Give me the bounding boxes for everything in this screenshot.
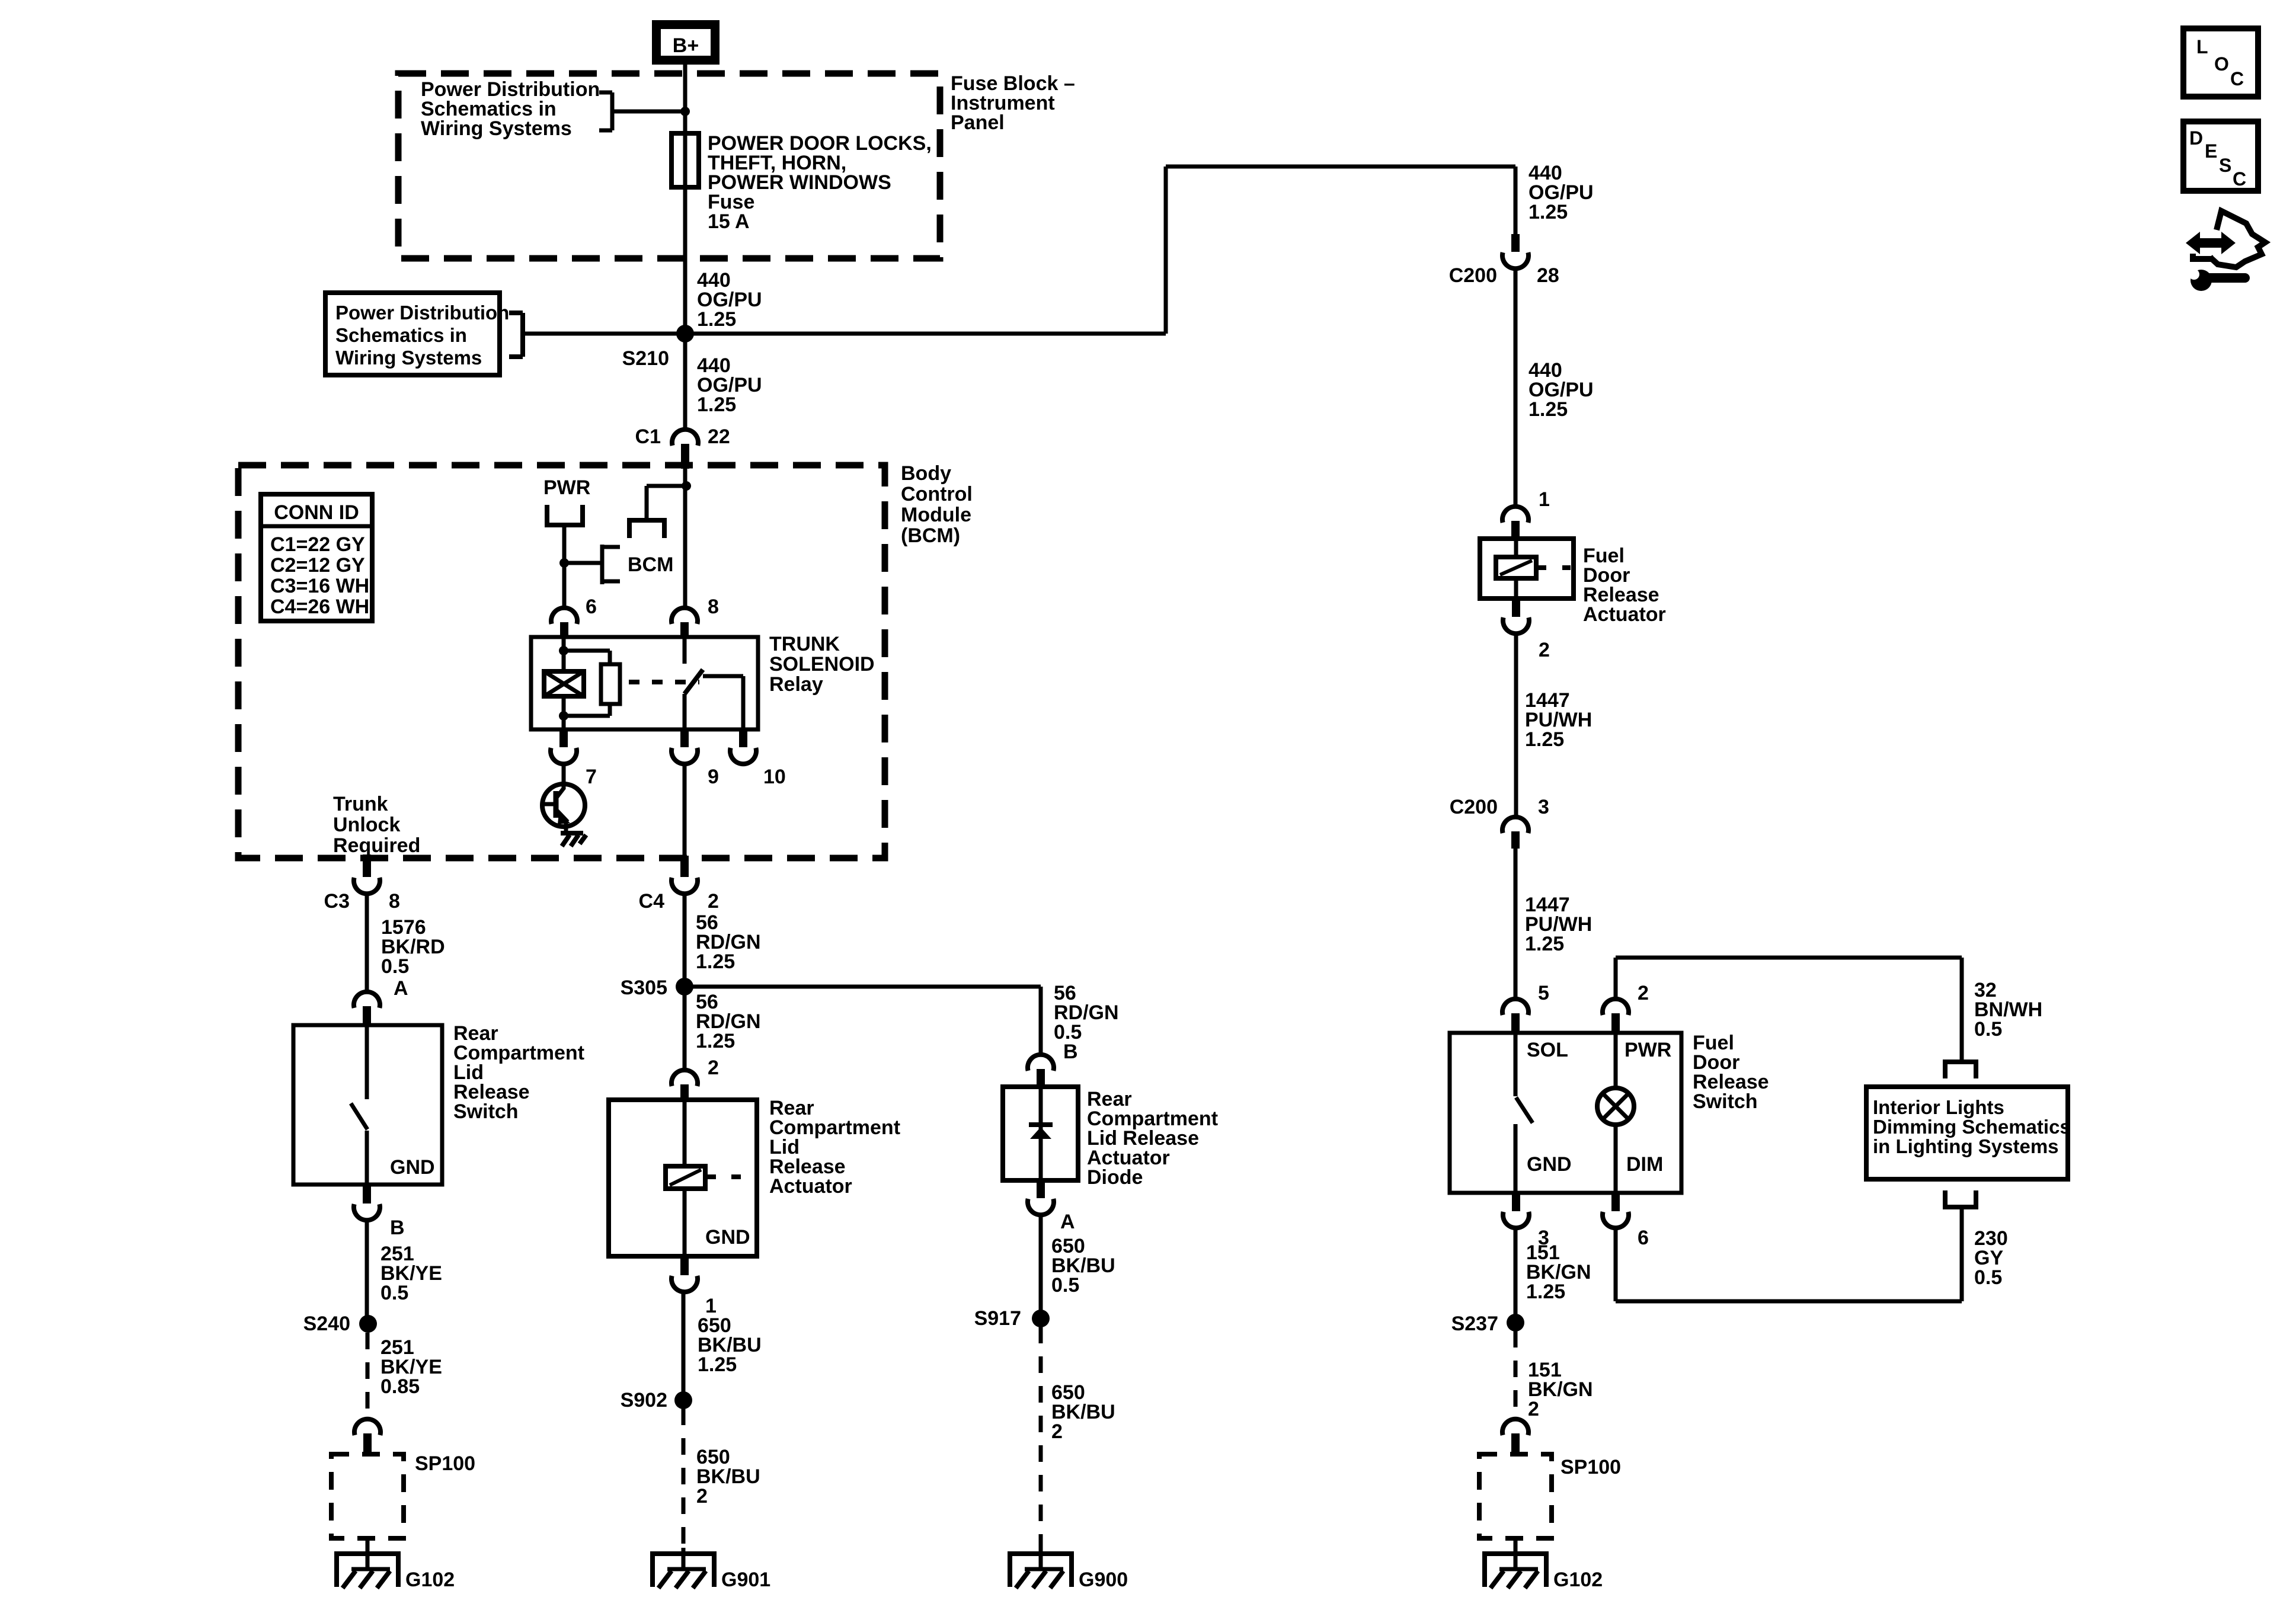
svg-text:Schematics in: Schematics in [335,324,467,346]
wire right riser [1164,167,1168,334]
svg-text:C: C [2233,168,2246,190]
svg-text:2: 2 [1539,639,1550,661]
svg-text:Actuator: Actuator [1583,603,1666,626]
CONN ID table [261,494,372,621]
svg-text:0.5: 0.5 [1974,1018,2002,1041]
connector A below diode [1028,1180,1075,1233]
connector 1 at fuel actuator [1502,507,1528,539]
transistor driver Q (trunk solenoid driver) [542,784,585,833]
wire trunk into BCM to pin 8 [683,469,687,610]
wire relay pin9 to C4 [683,763,687,856]
connector C1 pin 22 [635,425,730,469]
wire B to S240 [365,1219,369,1324]
svg-text:CONN ID: CONN ID [274,501,359,524]
BCM internal cup symbol [627,520,667,538]
svg-text:8: 8 [708,596,719,618]
connector C200 pin 3 [1450,796,1549,849]
connector C3 pin 8 [324,854,400,913]
svg-text:O: O [2214,53,2229,75]
svg-text:PWR: PWR [543,476,590,499]
connector C200 pin 28 [1449,234,1559,287]
svg-text:Relay: Relay [769,673,823,696]
relay pin 6 [551,596,597,637]
svg-text:G102: G102 [405,1569,455,1591]
connector at SP100 (left) [354,1419,380,1454]
box Power Distribution Schematics in Wiring Systems [325,293,509,375]
svg-text:A: A [1060,1211,1075,1233]
svg-text:5: 5 [1538,982,1549,1004]
service icon (arrow, outline, wrench) [2182,211,2265,291]
svg-text:C1=22 GY: C1=22 GY [270,533,365,556]
DESC legend box [2183,121,2258,191]
svg-text:S917: S917 [974,1307,1021,1330]
fuse F: POWER DOOR LOCKS 15 A [671,133,699,187]
dashed wire S917 to G900 [1039,1327,1043,1548]
ground G900 [1008,1554,1128,1591]
svg-text:6: 6 [586,596,597,618]
svg-text:0.5: 0.5 [1974,1266,2002,1289]
svg-text:6: 6 [1638,1227,1649,1249]
svg-text:Trunk: Trunk [333,793,388,815]
connector 6 (DIM) below switch [1603,1193,1649,1249]
wire C4 to S305 [683,893,687,1071]
svg-text:S305: S305 [621,977,667,999]
svg-text:TRUNK: TRUNK [769,633,840,655]
svg-text:C2=12 GY: C2=12 GY [270,554,365,577]
svg-text:C3=16 WH: C3=16 WH [270,575,369,597]
svg-text:B+: B+ [673,34,699,57]
svg-text:0.85: 0.85 [380,1375,420,1398]
splice S210 [676,325,694,343]
svg-text:1.25: 1.25 [1528,398,1568,421]
svg-text:DIM: DIM [1626,1153,1663,1176]
dock bracket below interior lights box [1943,1190,1978,1207]
fuel actuator coil [1496,539,1571,598]
connector 3 (GND) below switch [1503,1193,1549,1249]
relay pin 8 [671,596,719,637]
splice S917 [1032,1310,1050,1327]
fuel door switch contact [1515,1033,1533,1193]
svg-text:G102: G102 [1553,1569,1603,1591]
svg-text:2: 2 [1638,982,1649,1004]
svg-text:D: D [2189,127,2203,149]
svg-text:C: C [2230,68,2244,89]
box Rear Compartment Lid Release Switch [293,1025,442,1185]
splice S240 [359,1315,377,1333]
wire DIM loop bottom [1614,1227,1618,1301]
svg-text:C200: C200 [1450,796,1498,818]
connector B at diode [1028,1055,1054,1087]
svg-text:in Lighting Systems: in Lighting Systems [1873,1135,2059,1157]
svg-text:Control: Control [901,483,973,505]
svg-text:PWR: PWR [1625,1039,1671,1061]
wire C200-3 to switch SOL [1514,847,1518,1000]
svg-text:S237: S237 [1451,1313,1498,1335]
svg-text:GND: GND [390,1156,435,1179]
wire GND to S237 [1514,1227,1518,1323]
svg-text:B: B [390,1217,405,1239]
wire top horizontal to C200 [1166,165,1515,169]
indicator lamp [1597,1033,1634,1193]
svg-text:SP100: SP100 [1560,1456,1621,1478]
wire 1 to S902 [682,1291,686,1400]
wire to BCM bracket [564,561,602,565]
wire to C200-3 [1514,633,1518,818]
svg-text:28: 28 [1537,264,1559,287]
relay mechanical link (dashed) [629,680,699,684]
diode D [1029,1087,1053,1180]
svg-text:1.25: 1.25 [698,1353,737,1376]
svg-text:C1: C1 [635,425,661,448]
relay pin 10 [730,729,786,788]
svg-text:1.25: 1.25 [697,393,736,416]
svg-text:BCM: BCM [628,553,673,576]
svg-text:E: E [2205,140,2217,162]
relay pin 7 [551,729,597,788]
svg-text:Switch: Switch [1693,1090,1758,1113]
svg-text:Wiring Systems: Wiring Systems [421,117,572,140]
svg-text:2: 2 [708,1057,719,1079]
svg-text:S902: S902 [621,1389,667,1411]
svg-text:2: 2 [708,890,719,913]
wire down to C200 28 [1514,167,1518,234]
svg-text:22: 22 [708,425,730,448]
svg-text:1.25: 1.25 [1525,728,1564,751]
ground G102 [334,1554,455,1591]
connector 2 (PWR) at fuel door switch [1603,999,1629,1033]
svg-text:0.5: 0.5 [1051,1274,1079,1297]
svg-text:Actuator: Actuator [769,1175,852,1198]
svg-text:Body: Body [901,462,951,485]
dashed wire S237 to SP100 [1514,1331,1518,1413]
svg-text:2: 2 [1528,1398,1539,1420]
junction dot on pin 8 wire [682,481,691,491]
svg-text:(BCM): (BCM) [901,524,960,547]
box Fuel Door Release Actuator [1480,539,1574,598]
svg-text:9: 9 [708,766,719,788]
wire A to S917 [1039,1214,1043,1318]
wire S210 horizontal [523,332,1166,336]
svg-text:Module: Module [901,504,971,526]
svg-text:2: 2 [696,1485,708,1507]
fuse block dashed box: Fuse Block - Instrument Panel [398,73,940,258]
junction dot at fuse feed [680,107,690,116]
wire C200-28 to fuel actuator [1514,268,1518,507]
svg-text:10: 10 [763,766,786,788]
svg-text:S240: S240 [303,1313,350,1335]
connector 5 at fuel door switch [1502,999,1528,1033]
splice S237 [1507,1314,1524,1331]
svg-text:C200: C200 [1449,264,1497,287]
bracket from Power Distribution text to wire [599,92,685,130]
svg-text:Power Distribution: Power Distribution [335,302,509,324]
svg-text:1.25: 1.25 [1526,1281,1565,1303]
svg-text:L: L [2196,36,2208,57]
svg-text:Switch: Switch [453,1100,519,1123]
battery feed B+ [657,25,715,60]
ground G102 [1482,1554,1603,1591]
svg-text:C4: C4 [639,890,665,913]
BCM internal bracket [602,545,673,584]
svg-text:Unlock: Unlock [333,814,400,836]
svg-text:1.25: 1.25 [1525,933,1564,955]
svg-text:B: B [1063,1041,1078,1063]
bracket from Power Distribution box to S210 [509,313,523,357]
svg-text:0.5: 0.5 [381,955,409,978]
wire C3 to switch [365,893,369,993]
svg-text:C4=26 WH: C4=26 WH [270,596,369,618]
wire SP100 to G102 [366,1538,370,1554]
splice pack SP100 (right) dashed box [1479,1454,1621,1538]
relay resistor [564,651,620,716]
svg-text:G900: G900 [1079,1569,1128,1591]
connector 1 below actuator [671,1256,717,1317]
relay switch [685,637,743,729]
wire B+ to C1 [683,65,687,430]
connector at SP100 (right) [1502,1419,1528,1454]
svg-text:Interior Lights: Interior Lights [1873,1096,2004,1118]
dock bracket above interior lights box [1943,1062,1978,1078]
relay box TRUNK SOLENOID Relay [531,637,758,729]
dashed wire S902 to G901 [682,1409,686,1548]
svg-text:A: A [394,977,408,1000]
transistor ground [561,833,586,846]
junction dot on PWR wire [559,558,569,568]
svg-text:1.25: 1.25 [696,950,735,973]
svg-text:SOLENOID: SOLENOID [769,653,875,676]
svg-text:1.25: 1.25 [696,1030,735,1052]
svg-text:C3: C3 [324,890,350,913]
splice pack SP100 (left) dashed box [331,1452,475,1538]
relay pin 9 [671,729,719,788]
svg-text:1.25: 1.25 [1528,201,1568,223]
splice S902 [674,1391,692,1409]
svg-text:Diode: Diode [1087,1166,1143,1189]
wire pin7 to transistor [562,763,566,789]
box Rear Compartment Lid Release Actuator [609,1100,757,1256]
connector C4 pin 2 [639,856,719,913]
svg-text:1.25: 1.25 [697,308,736,331]
svg-text:3: 3 [1538,796,1549,818]
splice S305 [676,978,693,996]
svg-text:Panel: Panel [951,111,1005,134]
ground G901 [650,1554,770,1591]
svg-text:0.5: 0.5 [380,1282,408,1304]
BCM dashed box: Body Control Module [238,465,885,858]
svg-text:GND: GND [705,1226,750,1249]
svg-text:15 A: 15 A [708,210,750,233]
connector B below switch [354,1185,405,1239]
svg-text:SOL: SOL [1527,1039,1568,1061]
actuator solenoid coil [666,1100,757,1256]
connector 2 at actuator [671,1070,698,1100]
wire S305 to diode branch [685,985,1041,989]
svg-text:S: S [2219,155,2231,176]
switch contact inside [351,1025,435,1185]
wire PWR to pin 6 [562,525,567,610]
wire PWR loop top [1616,956,1962,960]
box Rear Compartment Lid Release Actuator Diode [1003,1087,1078,1180]
svg-text:7: 7 [586,766,597,788]
box Interior Lights Dimming Schematics in Lighting Systems [1866,1087,2071,1179]
svg-text:SP100: SP100 [415,1452,475,1475]
svg-text:8: 8 [389,890,400,913]
PWR internal symbol [543,476,590,525]
box Fuel Door Release Switch [1450,1033,1681,1193]
wire SP100 to G102 (right) [1514,1538,1518,1554]
svg-text:1: 1 [1539,488,1550,511]
svg-text:GND: GND [1527,1153,1572,1176]
svg-text:2: 2 [1051,1420,1063,1443]
dashed wire S240 to SP100 [366,1333,370,1413]
relay coil (box with X) [544,671,584,696]
connector 2 below fuel actuator [1503,598,1550,661]
LOC legend box [2183,28,2258,97]
svg-text:Wiring Systems: Wiring Systems [335,347,482,369]
svg-text:Required: Required [333,834,420,857]
connector A at release switch [354,992,380,1025]
svg-text:G901: G901 [721,1569,770,1591]
relay coil wire [562,637,566,729]
svg-text:Dimming Schematics: Dimming Schematics [1873,1116,2071,1138]
wire junction to internal cup [647,484,686,488]
svg-text:S210: S210 [622,347,669,370]
